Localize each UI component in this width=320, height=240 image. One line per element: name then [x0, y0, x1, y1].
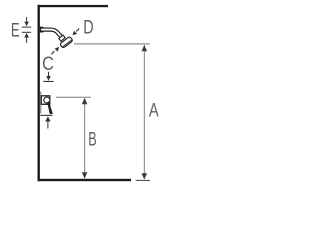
svg-text:B: B — [88, 130, 96, 151]
svg-text:E: E — [11, 21, 20, 42]
svg-text:A: A — [149, 101, 159, 122]
svg-text:D: D — [83, 18, 93, 39]
